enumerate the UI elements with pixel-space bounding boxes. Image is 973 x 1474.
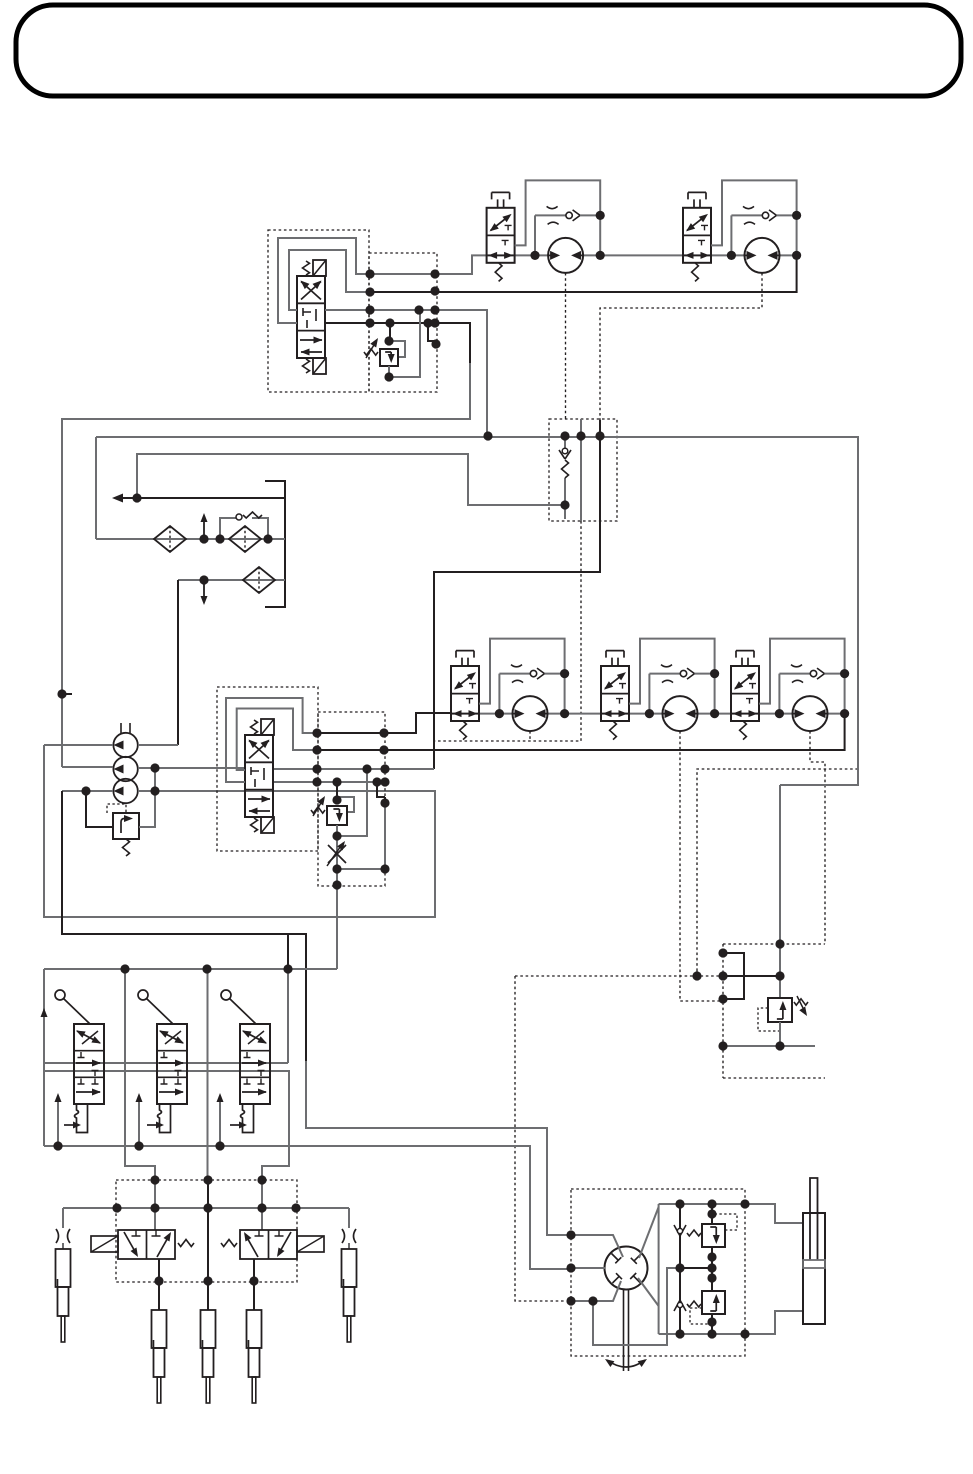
return arrow to tank [112, 494, 285, 503]
steering ports [612, 1254, 642, 1284]
arrow up left riser [41, 1008, 48, 1017]
junction dots joystick [53, 964, 292, 1150]
pilot stub hook [377, 782, 385, 803]
solenoid bottom V2b with spring [251, 817, 275, 833]
pump P1 [113, 733, 137, 757]
check valve with orifice M2C [731, 206, 796, 255]
steering supply line down [779, 785, 781, 998]
cylinder C3 telescopic [247, 1310, 262, 1403]
relief RP pilot dashed [107, 804, 126, 813]
bus y=769 from valve V2 right [274, 768, 434, 770]
RS2 pilot dashed [690, 1308, 712, 1324]
bracket pilot connections [723, 953, 744, 999]
hydraulic motor M4 [663, 696, 698, 731]
dashed enclosure flow control section [318, 712, 385, 886]
pilot dashed continuation down-left [434, 521, 581, 741]
throttle TH1 variable [327, 841, 346, 866]
main supply bus y=436 [96, 436, 858, 438]
test point stub [62, 693, 72, 695]
dashed pilot from left [515, 969, 723, 976]
pilot dashed from motor M5 [810, 731, 825, 944]
breather arrow up [201, 513, 208, 539]
riser from pump P1 to filter line [177, 580, 179, 745]
feeds through box [154, 1180, 156, 1230]
joystick handle J3H [221, 990, 256, 1024]
relief R1 adjustable spring arrow [364, 338, 378, 358]
solenoid valve SV2 2-position [221, 1230, 324, 1259]
valve M2V pilot-operated 2-way [683, 192, 711, 281]
steering work bus left vertical [658, 1204, 660, 1334]
port wires into steering [571, 1235, 623, 1257]
filter line 2 [178, 579, 285, 581]
middle motor bus [451, 713, 845, 715]
hydraulic motor M1 [548, 238, 583, 273]
dashed pilot bracket down [723, 944, 825, 1078]
filter F1 [154, 526, 186, 552]
pressure valve RS1 [702, 1224, 725, 1247]
junction dots solenoid box [112, 1175, 300, 1285]
pump P2 [113, 757, 137, 781]
outlet SV2 to cylinder [253, 1259, 255, 1310]
pilot riser to center cylinder [207, 969, 209, 1180]
supply bus y=1208 [63, 1207, 349, 1209]
check valve C1 with spring [559, 436, 571, 519]
joystick tank bus [44, 1146, 571, 1269]
wire loop over motor M5 [759, 639, 845, 714]
pump P3 outlet loop to tank circuit [44, 745, 435, 917]
pilot control valve J3 [230, 1024, 270, 1133]
solenoid top V2a with spring [251, 719, 275, 735]
dashed enclosure loader control valve [217, 687, 318, 851]
pump P1 outlet [138, 744, 178, 746]
junction dots M5 [775, 669, 849, 718]
relief R2 adjustable arrow [311, 796, 325, 816]
valve M1V pilot-operated 2-way [487, 192, 515, 281]
directional control valve V1 3-position [297, 276, 325, 358]
filter F2 [229, 526, 261, 552]
cylinder CL telescopic [56, 1249, 71, 1342]
relief R1 outlet to bus P [389, 310, 420, 377]
pump P3 [113, 779, 137, 803]
relief R3 adjustable arrow [794, 996, 808, 1016]
pump drive shaft [121, 723, 130, 733]
cylinder CR telescopic [342, 1249, 357, 1342]
pilot riser from return bus [287, 969, 289, 1063]
pump P3 inlet line [62, 790, 113, 792]
pilot relief valve R1 drop from bus T [389, 323, 391, 341]
cylinder C2 telescopic [201, 1310, 216, 1403]
junction dots top valve area [365, 269, 440, 381]
dashed enclosure main control valve [268, 230, 369, 392]
junction dots right relief [692, 939, 784, 1050]
suction line pump P1 [44, 744, 113, 746]
work port diagonals [639, 1207, 659, 1258]
pump P2 outlet to valve V2 [138, 767, 245, 769]
wire valve A feed riser to motor valve M1V [435, 255, 487, 274]
pressure valve R2 [327, 806, 347, 825]
wire hook outer V2 [226, 698, 317, 782]
junction dots M3 [495, 669, 569, 718]
interconnect pumps [154, 768, 156, 791]
dashed enclosure steering unit [571, 1189, 745, 1356]
junction dots M2 [727, 211, 801, 260]
relief RP outlet to pump line [139, 769, 155, 827]
pilot dashed from motor M3 [529, 731, 531, 741]
coupling right [342, 1229, 356, 1243]
relief valve RP inlet riser [86, 791, 113, 827]
joystick bus upper [44, 1062, 288, 1064]
dashed enclosure check section [549, 419, 617, 521]
relief R2 loop [337, 797, 354, 812]
check valve with orifice M1C [535, 206, 600, 255]
hydraulic motor M2 [745, 238, 780, 273]
bus T sweep to pump suction [62, 363, 470, 767]
cylinder C1 telescopic [152, 1310, 167, 1403]
bus B y=291 [370, 255, 797, 292]
drop left to cylinder CL [62, 1208, 64, 1249]
pilot dashed from motor M4 [680, 731, 723, 1001]
pressure valve R3 [768, 998, 792, 1022]
joystick handle J1H [55, 990, 90, 1024]
junction dots middle valve area [312, 728, 389, 889]
check column [679, 1204, 681, 1334]
valve M5V pilot-operated 2-way [731, 651, 759, 740]
solenoid valve SV1 2-position [91, 1230, 194, 1259]
pilot gray line through box [580, 419, 582, 521]
joystick supply bus [44, 968, 337, 970]
suction line pump P2 from left bus [62, 766, 113, 768]
tank port wire [571, 1281, 621, 1301]
pilot stub hook near bus T [428, 323, 436, 348]
check valve symbols [674, 1225, 686, 1311]
relief RP spring below [123, 839, 130, 856]
pressure valve R1 [380, 349, 398, 366]
check valve with orifice M4C [649, 665, 714, 714]
riser with arrow J3 [217, 1093, 224, 1146]
tank return line from filters [137, 454, 565, 505]
valve M3V pilot-operated 2-way [451, 651, 479, 740]
pilot line from motor M2 [600, 273, 762, 420]
steering rotation arc [605, 1359, 647, 1367]
steering bottom bus [659, 1311, 803, 1334]
left pilot riser [43, 969, 45, 1146]
throttle outlet tie [337, 803, 385, 869]
junction dots check box [483, 431, 604, 509]
bus A y=274 [370, 273, 435, 275]
left return bus down [62, 791, 306, 1061]
drain arrow down [201, 580, 208, 605]
filter supply line [96, 538, 285, 540]
bypass spring check symbol [236, 512, 262, 520]
outlet SV1 to cylinder [158, 1259, 160, 1310]
relief R3 pilot dashed [758, 1008, 780, 1031]
drop right to cylinder CR [348, 1208, 350, 1249]
bus y=782 from valve V2 right [274, 781, 385, 783]
steering cylinder SC [803, 1178, 825, 1324]
valve M4V pilot-operated 2-way [601, 651, 629, 740]
dashed enclosure relief section [369, 253, 437, 392]
wire hook outer V1 port B to bus A [278, 238, 370, 323]
pilot line y=976 [723, 975, 780, 977]
junction dots M1 [530, 211, 604, 260]
coupling left [56, 1229, 70, 1243]
wire hook inner V1 port A to bus B [289, 250, 370, 310]
filter manifold bracket [265, 481, 285, 607]
solenoid top V1a with spring [303, 260, 327, 276]
check valve with orifice M3C [499, 665, 564, 714]
steering feed line upper [306, 1061, 571, 1235]
bus y=750 long black [317, 714, 845, 750]
bypass check around filter F2 [220, 518, 268, 539]
joystick bus lower to valve SV2 [44, 1071, 289, 1180]
relief R2 drop [336, 782, 338, 800]
filter F3 [243, 567, 275, 593]
relief R2 outlet [337, 769, 367, 836]
dashed line at y=944 [723, 943, 825, 945]
bus T y=323 [325, 323, 470, 364]
dashed steering pilot long [515, 976, 565, 1301]
riser with arrow J1 [55, 1093, 62, 1146]
check valve with orifice M5C [779, 665, 844, 714]
junction dots steering [566, 1199, 749, 1338]
line y=1046 [723, 1045, 815, 1047]
steering column [624, 1289, 629, 1371]
wire loop over motor M2 [711, 180, 797, 255]
dashed enclosure solenoid valves [116, 1180, 297, 1282]
bus P y=310 [325, 309, 487, 436]
directional control valve V2 3-position [245, 735, 273, 817]
bus y=733 to motor valve M3V [317, 713, 451, 733]
relief R3 outlet [779, 1022, 781, 1046]
nested corner bus from x=96 [95, 437, 97, 539]
solenoid bottom V1b with spring [303, 358, 327, 374]
riser with arrow J2 [136, 1093, 143, 1146]
wire loop over motor M4 [629, 639, 715, 714]
pilot control valve J1 [64, 1024, 104, 1133]
throttle line down [336, 836, 338, 885]
main line down to joystick supply [336, 885, 338, 969]
relief column [711, 1204, 713, 1334]
mid tie line [680, 1267, 712, 1269]
hydraulic motor M5 [793, 696, 828, 731]
black line from box to middle valve area [434, 420, 600, 769]
RS1 pilot dashed [712, 1214, 737, 1230]
top motor bus [487, 254, 797, 256]
wire loop over motor M3 [479, 639, 565, 714]
junction dots pump area [57, 689, 159, 795]
title block rounded frame [16, 5, 961, 96]
pressure valve RS2 [702, 1291, 725, 1314]
steering circle [605, 1247, 648, 1290]
riser to return bus [287, 934, 289, 969]
junction dots M4 [645, 669, 719, 718]
right side supply drop [780, 436, 858, 785]
steering top bus [659, 1204, 803, 1223]
relief R1 bypass loop [389, 341, 405, 357]
pilot line from motor M1 [565, 273, 567, 419]
junction dots filter area [132, 493, 272, 584]
pressure valve RP [113, 813, 139, 839]
wire loop over motor M1 [515, 180, 601, 255]
pilot riser to valve SV1 [125, 969, 155, 1180]
joystick handle J2H [138, 990, 173, 1024]
pilot dashed net right [697, 769, 858, 969]
wire hook inner V2 [237, 709, 317, 771]
pilot control valve J2 [147, 1024, 187, 1133]
hydraulic motor M3 [513, 696, 548, 731]
